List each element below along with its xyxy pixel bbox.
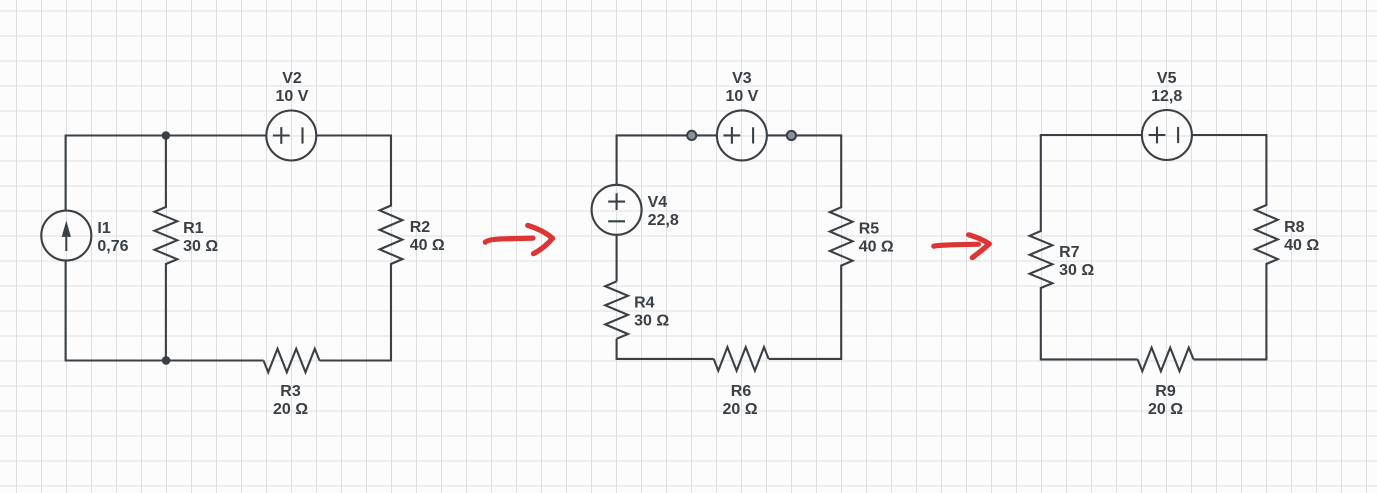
current source I1 xyxy=(41,211,91,261)
node junction dot top xyxy=(162,131,171,140)
wire: c2 left lower (R4 bottom to corner) xyxy=(616,339,618,359)
svg-text:I1: I1 xyxy=(97,220,110,237)
svg-text:40 Ω: 40 Ω xyxy=(410,237,445,254)
node dot right of V3 (gray terminal) xyxy=(787,131,796,140)
wire: c3 top-left segment (corner to V5 left terminal) xyxy=(1040,134,1142,136)
resistor R9 xyxy=(1138,348,1194,372)
V4 minus symbol xyxy=(608,220,625,222)
svg-text:10 V: 10 V xyxy=(725,88,758,105)
I1 arrow (points up) xyxy=(65,235,67,251)
svg-text:40 Ω: 40 Ω xyxy=(1284,237,1319,254)
wire: c1 left branch upper (corner down to I1 top) xyxy=(65,136,67,211)
svg-text:22,8: 22,8 xyxy=(648,212,679,229)
voltage source V2 xyxy=(266,111,316,161)
svg-text:12,8: 12,8 xyxy=(1151,88,1182,105)
wire: c3 bottom-right segment xyxy=(1194,358,1268,360)
svg-text:20 Ω: 20 Ω xyxy=(722,401,757,418)
V4 plus symbol xyxy=(608,193,625,210)
voltage source V5 xyxy=(1142,110,1192,160)
resistor R1 (middle branch, includes wires) xyxy=(155,136,178,361)
resistor R4 xyxy=(605,281,628,338)
wire: c1 bottom-right segment xyxy=(320,359,393,361)
svg-text:R6: R6 xyxy=(731,383,752,400)
svg-text:30 Ω: 30 Ω xyxy=(183,238,218,255)
svg-text:10 V: 10 V xyxy=(276,88,309,105)
wire: c2 left upper (corner down to V4 top) xyxy=(616,135,618,184)
V5 bar symbol xyxy=(1177,127,1179,143)
svg-text:V5: V5 xyxy=(1157,70,1177,87)
svg-text:V2: V2 xyxy=(282,70,302,87)
svg-text:20 Ω: 20 Ω xyxy=(1148,401,1183,418)
V2 bar symbol xyxy=(301,127,303,143)
wire: c2 bottom-right segment xyxy=(769,358,843,360)
wire: c1 left branch lower (I1 bottom to bottom-left corner) xyxy=(65,261,67,361)
svg-text:R3: R3 xyxy=(280,383,301,400)
wire: c1 top-right segment (V2 right terminal to top-right corner) xyxy=(316,134,392,136)
V3 bar symbol xyxy=(752,127,754,143)
node dot left of V3 (gray terminal) xyxy=(687,131,696,140)
svg-text:40 Ω: 40 Ω xyxy=(859,238,894,255)
wire: c3 top-right segment (V5 right terminal to corner) xyxy=(1192,134,1268,136)
resistor R6 xyxy=(714,347,769,371)
V5 plus symbol xyxy=(1149,127,1166,144)
svg-text:20 Ω: 20 Ω xyxy=(273,401,308,418)
svg-text:R4: R4 xyxy=(634,294,655,311)
resistor R3 xyxy=(264,349,320,373)
svg-text:R9: R9 xyxy=(1155,383,1176,400)
resistor R8 (right branch, includes wires) xyxy=(1255,135,1278,359)
svg-text:V3: V3 xyxy=(732,70,752,87)
wire: c1 top-left segment (top-left corner to V2 left terminal) xyxy=(65,134,267,136)
resistor R2 (right branch, includes wires) xyxy=(380,136,403,361)
svg-text:R7: R7 xyxy=(1059,244,1080,261)
svg-text:0,76: 0,76 xyxy=(97,238,128,255)
node junction dot bottom xyxy=(162,356,171,365)
svg-text:30 Ω: 30 Ω xyxy=(634,312,669,329)
resistor R7 (left branch, includes wires) xyxy=(1030,135,1053,359)
wire: c3 bottom-left segment xyxy=(1040,358,1138,360)
svg-text:R8: R8 xyxy=(1284,219,1305,236)
svg-text:R5: R5 xyxy=(859,220,880,237)
wire: c2 bottom-left segment xyxy=(616,358,714,360)
V2 plus symbol xyxy=(273,127,290,144)
resistor R5 (right branch, includes wires) xyxy=(830,135,853,359)
svg-text:30 Ω: 30 Ω xyxy=(1059,262,1094,279)
wire: c2 left middle (V4 bottom to R4 top) xyxy=(616,235,618,282)
svg-text:R1: R1 xyxy=(183,220,204,237)
wire: c2 top-left segment (corner to V3 left terminal) xyxy=(616,134,717,136)
wire: c2 top-right segment (V3 right terminal to corner) xyxy=(767,134,842,136)
V3 plus symbol xyxy=(724,127,741,144)
svg-text:V4: V4 xyxy=(648,194,668,211)
svg-text:R2: R2 xyxy=(410,219,431,236)
voltage source V3 xyxy=(717,110,767,160)
voltage source V4 xyxy=(592,185,642,235)
wire: c1 bottom-left segment xyxy=(65,359,264,361)
